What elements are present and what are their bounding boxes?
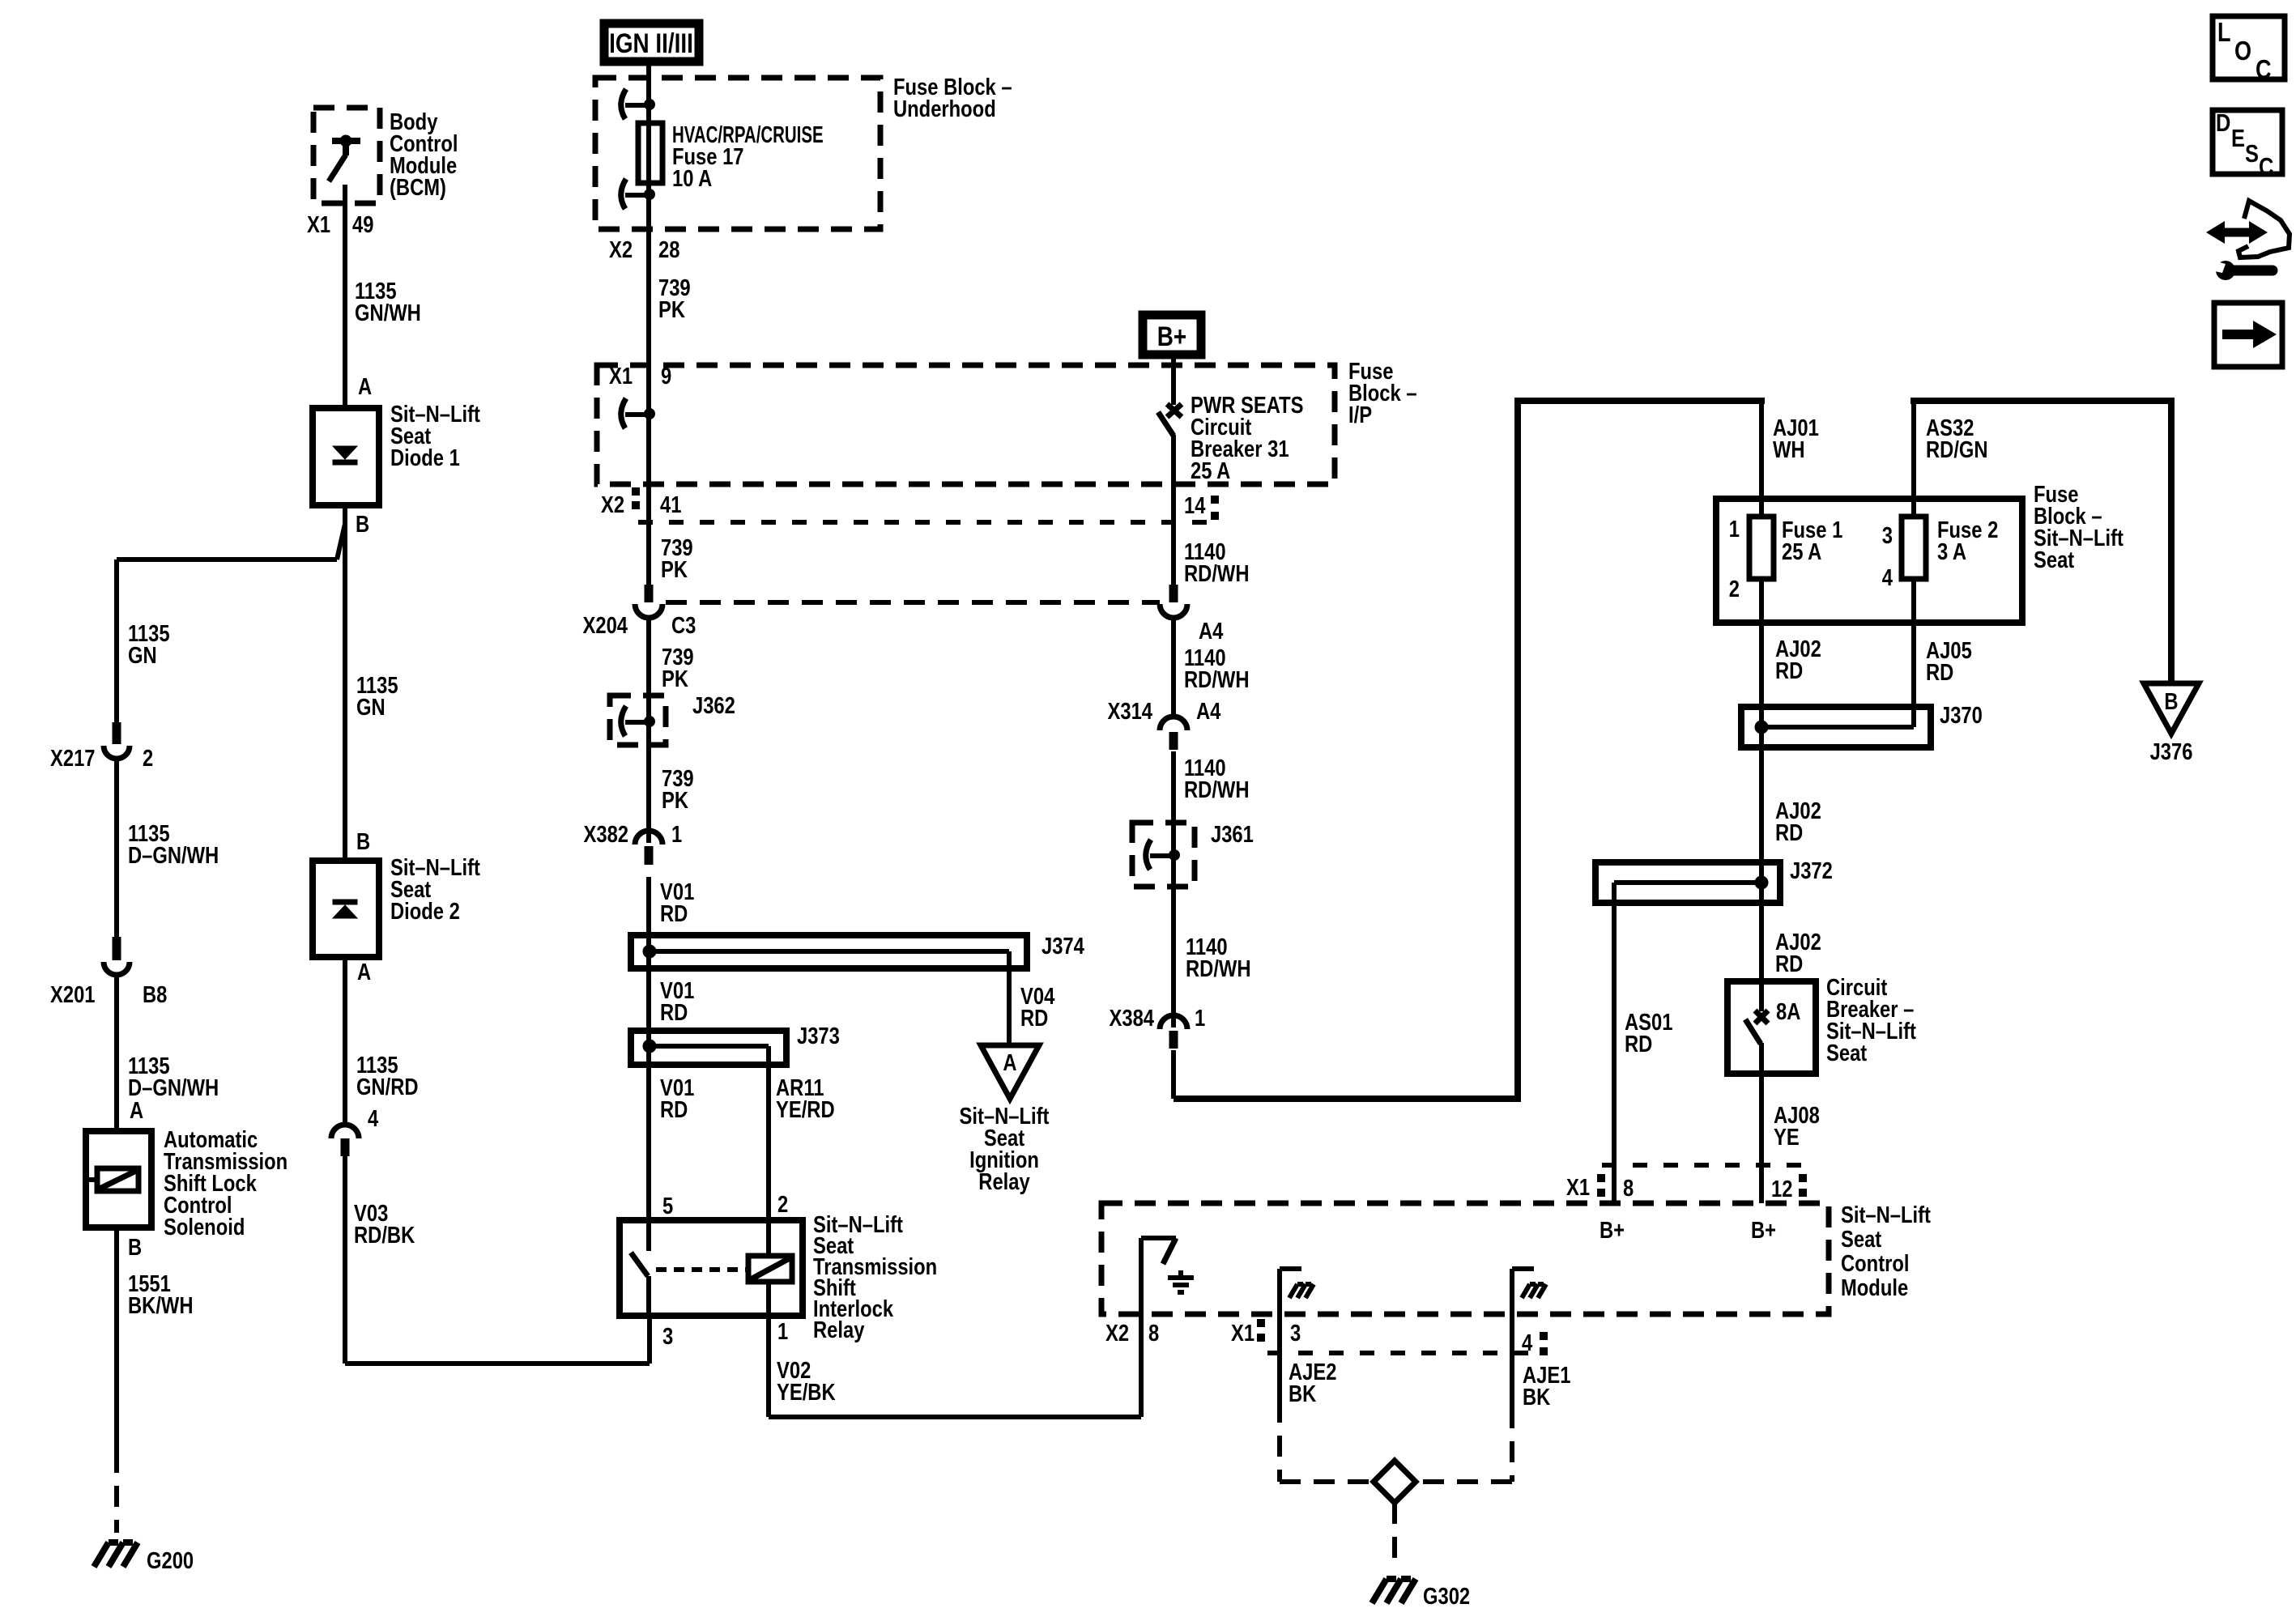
- svg-text:3 A: 3 A: [1937, 538, 1966, 565]
- svg-text:X201: X201: [50, 981, 95, 1008]
- svg-text:A: A: [357, 959, 371, 985]
- svg-text:J370: J370: [1940, 702, 1983, 729]
- svg-text:X314: X314: [1108, 698, 1153, 725]
- svg-text:A4: A4: [1199, 618, 1224, 645]
- svg-text:2: 2: [777, 1191, 788, 1218]
- svg-text:RD/WH: RD/WH: [1186, 955, 1251, 982]
- svg-text:RD/WH: RD/WH: [1184, 560, 1250, 587]
- svg-text:X217: X217: [50, 745, 95, 772]
- svg-text:PK: PK: [662, 787, 688, 814]
- svg-text:1: 1: [1729, 516, 1740, 542]
- svg-text:B: B: [128, 1234, 142, 1261]
- svg-text:A: A: [1003, 1049, 1016, 1076]
- svg-text:G200: G200: [147, 1547, 194, 1574]
- svg-text:B+: B+: [1157, 321, 1186, 351]
- svg-text:4: 4: [1882, 564, 1893, 591]
- svg-text:Underhood: Underhood: [893, 96, 996, 122]
- svg-text:Diode 1: Diode 1: [390, 445, 460, 471]
- svg-text:RD: RD: [1020, 1005, 1048, 1032]
- svg-text:X204: X204: [583, 612, 628, 639]
- svg-text:X1: X1: [609, 363, 633, 389]
- svg-text:PK: PK: [658, 296, 685, 323]
- svg-text:J374: J374: [1042, 933, 1084, 959]
- svg-text:G302: G302: [1423, 1583, 1470, 1610]
- svg-text:GN: GN: [356, 694, 386, 721]
- svg-text:PK: PK: [662, 666, 688, 692]
- svg-text:Control: Control: [1841, 1250, 1909, 1277]
- svg-text:J372: J372: [1790, 857, 1833, 884]
- svg-text:Relay: Relay: [978, 1168, 1030, 1195]
- svg-text:D–GN/WH: D–GN/WH: [128, 842, 219, 869]
- svg-text:12: 12: [1771, 1176, 1792, 1202]
- svg-text:B+: B+: [1751, 1217, 1776, 1244]
- svg-text:C: C: [2259, 153, 2273, 181]
- svg-text:D: D: [2216, 109, 2230, 138]
- svg-text:O: O: [2234, 37, 2251, 66]
- svg-text:28: 28: [658, 236, 679, 263]
- svg-text:41: 41: [660, 491, 681, 518]
- svg-text:L: L: [2217, 19, 2231, 48]
- svg-text:X2: X2: [1105, 1320, 1129, 1347]
- svg-text:GN: GN: [128, 642, 157, 669]
- svg-text:B: B: [356, 511, 369, 538]
- svg-text:4: 4: [1522, 1330, 1532, 1356]
- svg-text:S: S: [2245, 140, 2259, 168]
- svg-text:3: 3: [1882, 522, 1893, 549]
- svg-text:I/P: I/P: [1348, 402, 1372, 428]
- svg-text:X1: X1: [1566, 1174, 1590, 1201]
- svg-text:GN/WH: GN/WH: [355, 300, 421, 326]
- svg-text:PK: PK: [661, 556, 688, 583]
- svg-text:1: 1: [777, 1318, 788, 1345]
- svg-text:Sit–N–Lift: Sit–N–Lift: [1841, 1202, 1931, 1228]
- svg-text:5: 5: [662, 1193, 673, 1219]
- svg-text:1: 1: [671, 821, 682, 848]
- svg-text:X2: X2: [601, 491, 624, 518]
- svg-text:RD: RD: [1775, 819, 1803, 846]
- svg-text:B: B: [2164, 688, 2178, 715]
- svg-text:X2: X2: [609, 236, 633, 263]
- svg-text:Seat: Seat: [1826, 1040, 1867, 1066]
- svg-text:RD: RD: [660, 900, 688, 927]
- svg-text:Module: Module: [1841, 1274, 1908, 1301]
- svg-text:Seat: Seat: [2034, 547, 2074, 573]
- svg-text:IGN II/III: IGN II/III: [609, 28, 693, 58]
- svg-text:3: 3: [662, 1323, 673, 1350]
- svg-text:8: 8: [1623, 1175, 1634, 1202]
- svg-text:BK: BK: [1523, 1384, 1550, 1410]
- svg-text:B+: B+: [1600, 1217, 1625, 1244]
- svg-text:X382: X382: [584, 821, 628, 848]
- svg-text:RD/WH: RD/WH: [1184, 776, 1250, 803]
- svg-text:10 A: 10 A: [672, 165, 712, 192]
- svg-text:25 A: 25 A: [1782, 538, 1821, 565]
- svg-text:X1: X1: [307, 211, 330, 238]
- svg-text:4: 4: [368, 1105, 378, 1132]
- svg-text:J373: J373: [797, 1023, 840, 1049]
- svg-text:YE: YE: [1774, 1124, 1800, 1151]
- svg-text:(BCM): (BCM): [390, 174, 446, 201]
- svg-text:BK/WH: BK/WH: [128, 1292, 194, 1319]
- svg-text:RD: RD: [660, 999, 688, 1026]
- svg-text:A: A: [130, 1097, 143, 1124]
- svg-text:Diode 2: Diode 2: [390, 898, 460, 925]
- svg-text:E: E: [2231, 125, 2245, 153]
- svg-text:BK: BK: [1289, 1381, 1316, 1407]
- svg-text:14: 14: [1184, 492, 1206, 519]
- svg-text:25 A: 25 A: [1191, 457, 1230, 484]
- svg-text:X1: X1: [1231, 1320, 1254, 1347]
- svg-text:RD/WH: RD/WH: [1184, 666, 1250, 693]
- svg-text:YE/BK: YE/BK: [777, 1379, 836, 1406]
- svg-text:1: 1: [1195, 1005, 1205, 1032]
- svg-text:9: 9: [661, 363, 671, 389]
- svg-text:B: B: [356, 828, 370, 855]
- svg-text:WH: WH: [1773, 436, 1805, 463]
- svg-text:RD: RD: [1625, 1031, 1652, 1057]
- svg-text:RD: RD: [660, 1096, 688, 1123]
- svg-text:J361: J361: [1211, 821, 1254, 848]
- svg-text:8: 8: [1148, 1320, 1159, 1347]
- svg-text:RD: RD: [1775, 951, 1803, 977]
- svg-text:2: 2: [1729, 576, 1740, 602]
- svg-text:Relay: Relay: [813, 1317, 865, 1343]
- svg-text:RD/GN: RD/GN: [1926, 436, 1988, 463]
- svg-text:J376: J376: [2150, 738, 2193, 765]
- svg-text:A: A: [358, 373, 372, 400]
- svg-text:3: 3: [1290, 1320, 1301, 1347]
- svg-text:RD/BK: RD/BK: [354, 1222, 415, 1249]
- svg-text:Seat: Seat: [1841, 1226, 1881, 1253]
- svg-text:GN/RD: GN/RD: [356, 1074, 419, 1100]
- svg-text:B8: B8: [143, 981, 167, 1008]
- svg-text:RD: RD: [1775, 657, 1803, 684]
- svg-text:2: 2: [143, 745, 153, 772]
- svg-text:49: 49: [352, 211, 373, 238]
- svg-text:C: C: [2256, 56, 2272, 85]
- svg-text:YE/RD: YE/RD: [776, 1096, 835, 1123]
- svg-text:8A: 8A: [1776, 998, 1800, 1025]
- svg-text:X384: X384: [1110, 1005, 1155, 1032]
- svg-text:C3: C3: [671, 612, 696, 639]
- svg-text:J362: J362: [692, 692, 735, 719]
- svg-text:RD: RD: [1926, 659, 1953, 686]
- svg-text:A4: A4: [1196, 698, 1221, 725]
- svg-text:Solenoid: Solenoid: [164, 1214, 245, 1240]
